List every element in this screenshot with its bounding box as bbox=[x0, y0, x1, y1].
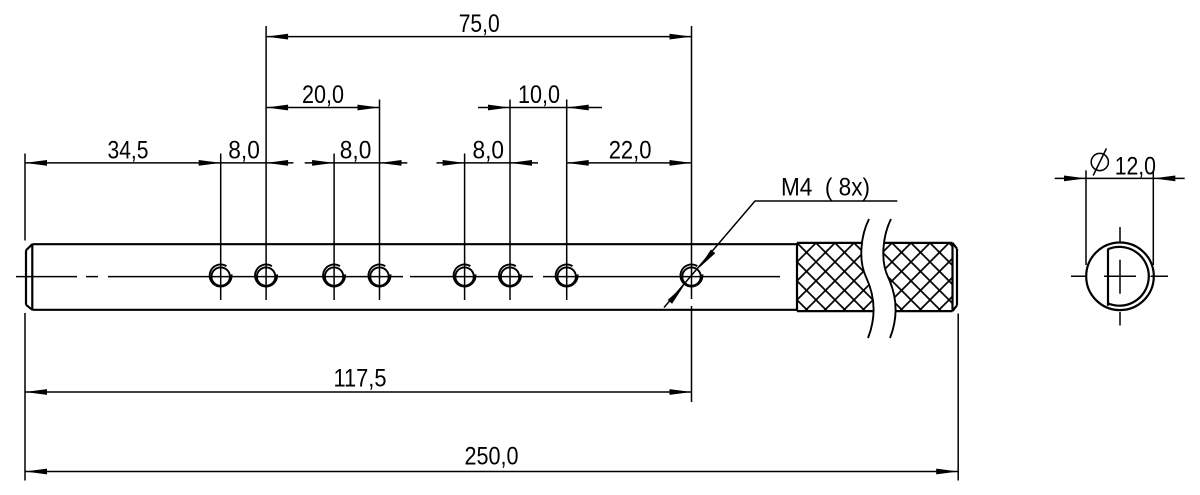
dimension line 34,5 + 8,0 first pair bbox=[25, 162, 293, 164]
extension+centerline hole 1 bbox=[220, 154, 222, 301]
extension+centerline hole 6 bbox=[509, 100, 511, 301]
dimension line 250,0 bbox=[25, 471, 958, 473]
svg-text:75,0: 75,0 bbox=[459, 10, 500, 38]
break line 2 bbox=[883, 219, 895, 338]
dimension line diameter 12 (outside arrows) bbox=[1055, 177, 1185, 179]
svg-text:8,0: 8,0 bbox=[228, 137, 259, 165]
leader arrow lower bbox=[668, 285, 685, 304]
hole 5 M4 tapped hole bbox=[454, 265, 476, 287]
dimension line 75,0 bbox=[266, 36, 691, 38]
extension+centerline hole 4 bbox=[379, 100, 381, 301]
svg-text:8,0: 8,0 bbox=[340, 137, 372, 165]
rod body outline (main view) bbox=[26, 244, 797, 310]
svg-text:8,0: 8,0 bbox=[473, 137, 505, 165]
hole 2 M4 tapped hole bbox=[255, 265, 277, 287]
extension+centerline hole 7 bbox=[566, 100, 568, 301]
svg-text:34,5: 34,5 bbox=[108, 137, 149, 165]
break line 1 bbox=[861, 219, 873, 338]
rod centerline bbox=[16, 276, 780, 278]
hole 1 M4 tapped hole bbox=[210, 265, 232, 287]
knurl hatch fill bbox=[797, 243, 953, 311]
extension+centerline hole 3 bbox=[333, 154, 335, 301]
dimension line 10,0 (outside arrows) bbox=[478, 107, 602, 109]
extension line left end (x=25) bbox=[24, 154, 26, 481]
hole 8 M4 tapped hole bbox=[680, 265, 702, 287]
hole 7 M4 tapped hole bbox=[556, 265, 578, 287]
svg-text:117,5: 117,5 bbox=[334, 365, 387, 393]
svg-text:M4 ( 8x): M4 ( 8x) bbox=[781, 174, 870, 202]
dimension line 22,0 bbox=[567, 162, 692, 164]
leader line M4 bbox=[664, 201, 897, 308]
dimension line 117,5 bbox=[25, 391, 692, 393]
diameter symbol bbox=[1091, 149, 1108, 176]
side view flat line bbox=[1107, 249, 1109, 306]
side view inner circle (D-shape with flat) bbox=[1108, 247, 1149, 306]
side view outer circle (d12) bbox=[1086, 242, 1154, 310]
break gap blank bbox=[861, 219, 895, 338]
dimension line 8,0 second pair bbox=[305, 162, 408, 164]
side view vertical centerline bbox=[1119, 227, 1121, 326]
svg-text:250,0: 250,0 bbox=[465, 442, 519, 470]
svg-text:22,0: 22,0 bbox=[609, 137, 652, 165]
side view horizontal centerline bbox=[1071, 275, 1168, 277]
knurl section outline bbox=[797, 243, 957, 311]
svg-text:12,0: 12,0 bbox=[1115, 153, 1156, 181]
extension+centerline hole 2 bbox=[265, 26, 267, 300]
dimension line 8,0 third pair bbox=[437, 162, 539, 164]
extension+centerline hole 8 bbox=[691, 26, 693, 402]
hole 6 M4 tapped hole bbox=[499, 265, 521, 287]
hole 3 M4 tapped hole bbox=[323, 265, 345, 287]
extension lines diameter 12 bbox=[1086, 170, 1153, 265]
svg-text:10,0: 10,0 bbox=[518, 81, 560, 109]
dimension line 20,0 bbox=[266, 107, 379, 109]
svg-text:20,0: 20,0 bbox=[302, 81, 344, 109]
extension+centerline hole 5 bbox=[464, 154, 466, 301]
extension line right end (x=958) bbox=[957, 314, 959, 481]
leader arrow upper bbox=[699, 250, 716, 269]
hole 4 M4 tapped hole bbox=[368, 265, 390, 287]
